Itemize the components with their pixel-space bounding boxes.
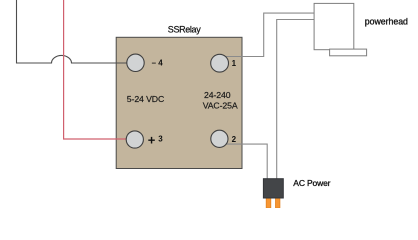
terminal 1 (211, 54, 229, 72)
wire DC positive (red) (64, 0, 135, 139)
svg-text:+: + (148, 133, 156, 148)
wire powerhead to AC plug (277, 20, 314, 180)
relay U1 SSRelay body (116, 37, 242, 168)
wire terminal 1 to powerhead (220, 13, 314, 56)
svg-text:2: 2 (232, 135, 237, 144)
wire terminal 2 to AC plug (220, 144, 268, 179)
svg-text:powerhead: powerhead (365, 16, 408, 26)
svg-text:AC Power: AC Power (293, 178, 330, 188)
AC plug prong left (266, 196, 271, 208)
svg-text:– 4: – 4 (152, 58, 164, 67)
svg-text:5-24 VDC: 5-24 VDC (127, 94, 164, 104)
AC plug body (263, 179, 283, 198)
terminal 2 (211, 130, 228, 147)
powerhead base (330, 49, 367, 56)
svg-text:24-240: 24-240 (204, 90, 231, 100)
svg-text:1: 1 (232, 59, 237, 68)
svg-text:VAC-25A: VAC-25A (203, 100, 238, 110)
svg-text:3: 3 (158, 135, 163, 144)
AC plug prong right (276, 196, 280, 208)
powerhead body (314, 3, 354, 49)
terminal 3 (126, 131, 143, 148)
svg-text:SSRelay: SSRelay (168, 25, 201, 35)
wire DC negative (vertical + horizontal with hop over red wire) (17, 0, 136, 63)
terminal 4 (127, 54, 144, 71)
